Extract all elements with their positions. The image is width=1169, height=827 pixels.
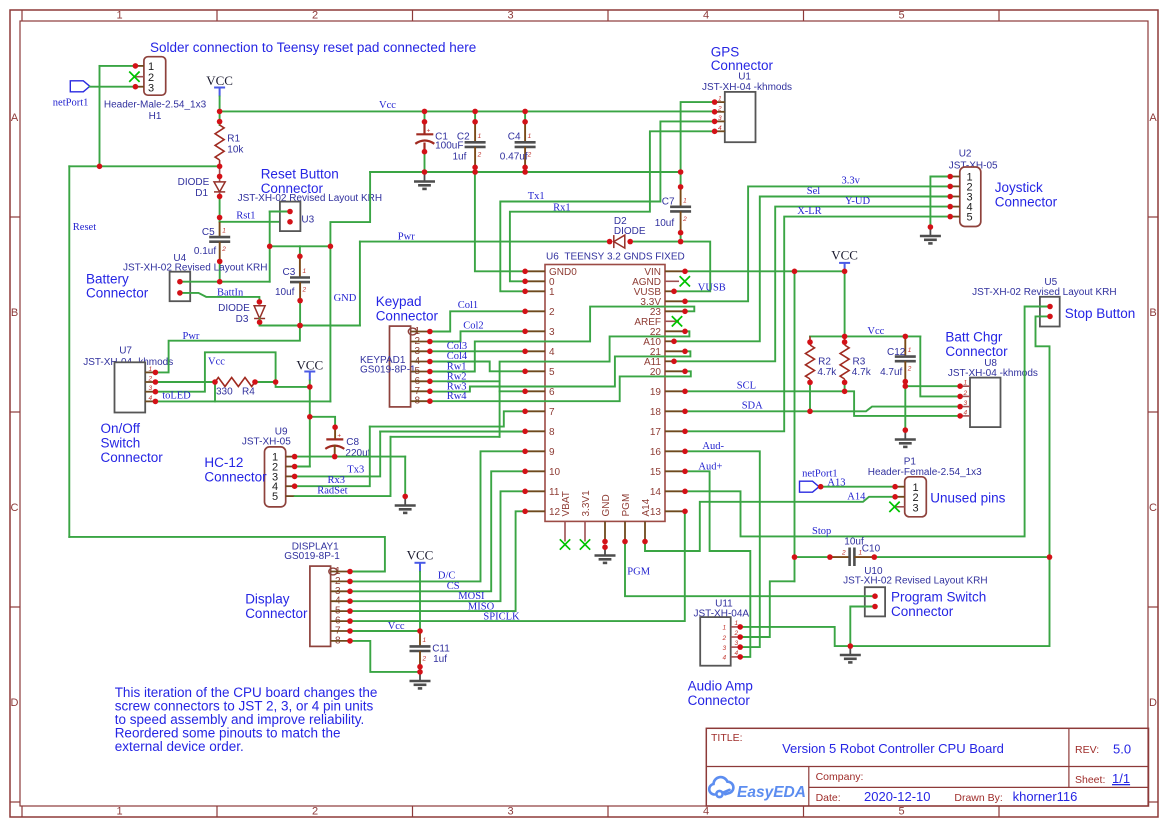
dot: DISPLAY1 pin stubs and dots	[347, 589, 353, 595]
dot: U6 right pin stubs and dots	[682, 409, 688, 415]
svg-text:VCC: VCC	[296, 358, 323, 373]
wire A13 to P1 pin1	[819, 486, 895, 488]
dot: DISPLAY1 pin stubs and dots	[347, 579, 353, 585]
dot: KEYPAD1 pin stubs and dots	[427, 379, 433, 385]
wire U9 pin2 to VCC node	[295, 466, 310, 468]
wire U4 pin1 to riser	[180, 281, 270, 283]
svg-text:A14: A14	[847, 492, 866, 503]
svg-text:2: 2	[312, 10, 318, 22]
dot: U8 pin stubs and dots	[957, 394, 963, 400]
wire U3 pin1 to GND riser	[270, 211, 290, 213]
dot: junction VIN at C10	[792, 554, 798, 560]
svg-text:1: 1	[149, 366, 153, 373]
dot: junction C8 top	[332, 424, 338, 430]
svg-text:0.47uf: 0.47uf	[500, 152, 528, 163]
svg-text:10: 10	[549, 467, 561, 478]
svg-text:330: 330	[216, 387, 233, 398]
dot: junction C4 at bus	[522, 169, 528, 175]
svg-text:2: 2	[302, 287, 307, 294]
wire R3 to SCL	[844, 383, 846, 392]
dot: junction C12 node	[903, 383, 909, 389]
svg-text:C2: C2	[457, 132, 470, 143]
dot: U1 pin dots	[712, 109, 718, 115]
dot: junction display Vcc	[417, 628, 423, 634]
svg-text:15: 15	[650, 467, 662, 478]
dot: junction R4 right	[273, 379, 279, 385]
resistor R1 10k	[215, 125, 224, 160]
U6 3.3V1 no-connect X	[580, 539, 590, 549]
svg-text:1: 1	[683, 197, 687, 204]
dot: capacitor C3 10uf	[297, 253, 303, 259]
wire Pwr horizontal to D2	[360, 241, 610, 243]
svg-text:Connector: Connector	[995, 195, 1058, 210]
svg-text:Header-Female-2.54_1x3: Header-Female-2.54_1x3	[868, 467, 982, 478]
svg-text:4: 4	[549, 347, 555, 358]
wire VIN line	[685, 270, 845, 272]
dot: U6 right pin stubs and dots	[671, 359, 677, 365]
wire 3.3v net pin 3.3V to joystick pin2	[685, 186, 950, 301]
wire VCC to R1	[219, 111, 221, 125]
wire Y-UD net A11 to joystick pin4	[674, 207, 950, 362]
svg-text:3: 3	[507, 10, 513, 22]
svg-text:Tx1: Tx1	[528, 191, 545, 202]
ground symbol under U6	[604, 547, 606, 555]
dot: junction Rst1 node	[217, 215, 223, 221]
svg-text:4.7k: 4.7k	[817, 367, 837, 378]
svg-text:Stop Button: Stop Button	[1065, 306, 1136, 321]
svg-text:3: 3	[148, 83, 154, 95]
dot: capacitor C4 0.47uf	[522, 119, 528, 125]
svg-text:1: 1	[116, 806, 122, 818]
dot: U6 GND pin dots	[602, 539, 608, 545]
wire node under R1 horizontal	[69, 165, 219, 167]
svg-text:D3: D3	[236, 314, 249, 325]
wire VCC down to HC12 node	[309, 387, 311, 417]
svg-text:Aud+: Aud+	[698, 462, 722, 473]
title block logo cell divider	[808, 767, 810, 807]
dot: U6 left pin stubs and dots	[522, 349, 528, 355]
wire Stop net pin14 to U5 pin1	[685, 307, 1050, 537]
svg-text:16: 16	[650, 447, 662, 458]
wire Aud+ net pin15 to U11 pin4	[685, 471, 750, 657]
frame row ticks right	[1148, 216, 1158, 218]
svg-text:2: 2	[722, 635, 727, 642]
wire GND0 riser	[475, 172, 525, 271]
dot: U1 pin dots	[712, 129, 718, 135]
svg-text:C8: C8	[346, 437, 359, 448]
svg-text:0.1uf: 0.1uf	[194, 246, 216, 257]
wire SDA net	[685, 407, 960, 412]
wire Rw2	[430, 380, 500, 382]
svg-text:2: 2	[717, 105, 722, 112]
svg-text:3: 3	[718, 115, 722, 122]
svg-text:Reset Button: Reset Button	[261, 167, 339, 182]
svg-text:1: 1	[423, 637, 427, 644]
wire Rw3 to pin21 over chip	[430, 351, 691, 391]
svg-text:Sel: Sel	[807, 186, 821, 197]
dot: junction GND vertical at bus y246	[328, 244, 334, 250]
svg-text:X-LR: X-LR	[797, 206, 822, 217]
dot: U6 left pin stubs and dots	[522, 469, 528, 475]
dot: U7 pin dots	[153, 379, 159, 385]
dot: U6 right pin stubs and dots	[671, 289, 677, 295]
svg-text:Drawn By:: Drawn By:	[954, 792, 1002, 804]
svg-text:C7: C7	[662, 197, 675, 208]
dot: diode D1	[217, 194, 223, 200]
dot: P1 pin dots	[892, 484, 898, 490]
svg-text:D: D	[11, 697, 19, 709]
svg-text:Batt Chgr: Batt Chgr	[945, 330, 1003, 345]
dot: U8 pin stubs and dots	[957, 383, 963, 389]
dot: U10 pin dots	[872, 604, 878, 610]
svg-text:R1: R1	[227, 133, 240, 144]
wire H1 pin1 left	[100, 65, 136, 67]
resistor R2 4.7k	[809, 336, 811, 345]
dot: capacitor C10 10uf horizontal	[872, 554, 878, 560]
wire U10 pin2 to gnd	[850, 607, 875, 647]
dot: U6 left pin stubs and dots	[522, 449, 528, 455]
svg-text:3.3V1: 3.3V1	[581, 490, 592, 517]
dot: junction bus at C7 riser	[678, 169, 684, 175]
power flag VCC (top left)	[214, 88, 225, 97]
connector KEYPAD1 body	[390, 326, 411, 407]
resistor R3 4.7k	[844, 336, 846, 345]
svg-text:Connector: Connector	[101, 450, 164, 465]
dot: resistor R3 4.7k	[842, 380, 848, 386]
svg-text:Unused pins: Unused pins	[930, 491, 1005, 506]
wire U7 pin1 Pwr	[155, 326, 300, 373]
svg-text:14: 14	[650, 487, 662, 498]
dot: capacitor C1 100uF polarized	[422, 109, 428, 115]
dot: KEYPAD1 pin stubs and dots	[427, 359, 433, 365]
wire U5 pin2 to right loop	[1036, 316, 1051, 557]
dot: junction gnd riser	[402, 494, 408, 500]
title block row divider 2	[809, 786, 1149, 788]
wire U9 pin1 line	[295, 456, 406, 458]
wire VCC display flag down	[419, 572, 421, 631]
capacitor C4 0.47uf	[524, 111, 526, 121]
wire R2 to SDA	[809, 383, 811, 412]
svg-text:GND: GND	[334, 293, 357, 304]
dot: P1 pin dots	[892, 494, 898, 500]
wire U7 pin3 Vcc loop	[155, 352, 275, 391]
wire display pin8 to gnd	[350, 641, 420, 672]
svg-text:5: 5	[549, 367, 555, 378]
svg-text:JST-XH-02 Revised Layout KRH: JST-XH-02 Revised Layout KRH	[238, 193, 383, 204]
wire Rw2/RadSet riser to pin22 over chip	[500, 331, 690, 437]
svg-text:5: 5	[967, 212, 973, 224]
dot: junction C1 at bus	[422, 169, 428, 175]
dot: capacitor C11 1uf	[417, 664, 423, 670]
wire pin6 tap	[500, 390, 525, 392]
dot: capacitor C4 0.47uf	[522, 165, 528, 171]
wire right loop down	[850, 557, 1049, 646]
svg-text:4: 4	[703, 10, 709, 22]
svg-text:DIODE: DIODE	[178, 177, 210, 188]
dot: U6 right pin stubs and dots	[682, 369, 688, 375]
svg-text:Date:: Date:	[816, 792, 841, 804]
ground symbol program switch	[849, 646, 851, 655]
U6 left pin stubs and dots	[525, 270, 545, 272]
dot: junction H1 pin1	[133, 63, 139, 69]
dot: U8 pin stubs and dots	[957, 413, 963, 419]
dot: junction H1 pin3	[133, 84, 139, 90]
svg-text:Connector: Connector	[688, 693, 751, 708]
H1 pin3 stub	[135, 86, 144, 88]
svg-text:Company:: Company:	[816, 771, 864, 783]
U9 pin stubs	[286, 456, 295, 458]
wire pin1 ground riser	[404, 457, 406, 497]
svg-text:6: 6	[549, 387, 555, 398]
dot: U6 right pin stubs and dots	[682, 329, 688, 335]
svg-text:GS019-8P-1: GS019-8P-1	[360, 365, 416, 376]
wire U11 pin1 to gnd bus	[740, 627, 850, 646]
svg-text:5: 5	[898, 10, 904, 22]
svg-text:U7: U7	[119, 346, 132, 357]
dot: U2 pin stubs and dots	[947, 204, 953, 210]
dot: capacitor C3 10uf	[297, 298, 303, 304]
svg-text:3: 3	[913, 502, 919, 514]
dot: U6 left pin stubs and dots	[522, 389, 528, 395]
dot: U6 GND pin dots	[602, 544, 608, 550]
svg-text:1/1: 1/1	[1112, 771, 1130, 786]
wire U7 pin4 toLED	[155, 400, 330, 402]
svg-text:1: 1	[964, 380, 968, 387]
dot: U6 left pin stubs and dots	[522, 429, 528, 435]
svg-text:HC-12: HC-12	[204, 455, 243, 470]
dot: junction C7 at Pwr line	[678, 239, 684, 245]
dot: junction R1 bottom	[217, 164, 223, 170]
svg-text:1: 1	[303, 268, 307, 275]
ground symbol under C1	[424, 172, 426, 182]
wire Rw4 to pin20 over chip	[430, 371, 691, 401]
svg-text:2: 2	[549, 307, 555, 318]
dot: junction VCC center	[307, 384, 313, 390]
ground symbol under C11	[419, 672, 421, 681]
wire Rst1 to U3 pin2	[220, 221, 290, 223]
DISPLAY1 pin stubs and dots	[331, 571, 350, 573]
diode D2	[614, 235, 625, 248]
svg-text:Y-UD: Y-UD	[845, 196, 870, 207]
svg-text:SCL: SCL	[737, 381, 756, 392]
dot: U6 left pin stubs and dots	[522, 489, 528, 495]
dot: U9 pin dots	[292, 454, 298, 460]
DISPLAY1 pin1 circle	[329, 568, 337, 575]
wire VIN rail vertical	[794, 271, 796, 581]
dot: DISPLAY1 pin stubs and dots	[347, 608, 353, 614]
dot: U7 pin dots	[153, 399, 159, 405]
title block outline	[706, 728, 1148, 806]
wire X-LR net pin17 to joystick pin5	[685, 217, 950, 432]
wire Col2	[430, 331, 525, 341]
dot: U6 right pin stubs and dots	[682, 449, 688, 455]
wire D/C display pin2 to pin9	[350, 451, 525, 581]
svg-text:PGM: PGM	[621, 494, 632, 517]
dot: U6 left pin stubs and dots	[522, 309, 528, 315]
dot: U7 pin dots	[153, 370, 159, 376]
ground symbol near HC-12	[404, 496, 406, 505]
wire U9 pin5 RadSet	[295, 437, 391, 496]
wire Reset to display pin1	[69, 537, 385, 572]
wire Sel net A10 to joystick pin3	[674, 197, 950, 342]
dot: capacitor C2 1uf	[472, 119, 478, 125]
wire R4 right	[255, 381, 276, 383]
wire Aud- net pin16 to U11 pin3	[685, 451, 760, 647]
dot: capacitor C11 1uf	[417, 669, 423, 675]
svg-text:Sheet:: Sheet:	[1075, 774, 1105, 786]
svg-text:Switch: Switch	[101, 436, 141, 451]
dot: U6 A14 pin dot	[642, 539, 648, 545]
svg-text:Connector: Connector	[204, 470, 267, 485]
wire C10 left	[795, 556, 830, 558]
svg-text:Stop: Stop	[812, 526, 831, 537]
svg-text:U3: U3	[301, 215, 314, 226]
svg-text:Rx3: Rx3	[328, 475, 346, 486]
dot: U9 pin dots	[292, 474, 298, 480]
svg-text:3: 3	[964, 400, 968, 407]
connector U10 body	[865, 587, 885, 616]
svg-text:TITLE:: TITLE:	[711, 732, 743, 744]
dot: junction R1 bottom	[97, 164, 103, 170]
dot: U6 right pin stubs and dots	[682, 309, 688, 315]
wire VIN to U11 pin2	[740, 581, 794, 637]
dot: U6 right pin stubs and dots	[682, 389, 688, 395]
H1 pin1 stub	[135, 65, 144, 67]
wire U9 pin3 Tx3	[295, 432, 381, 477]
svg-text:Vcc: Vcc	[379, 100, 396, 111]
svg-text:Vcc: Vcc	[867, 326, 884, 337]
svg-text:2: 2	[221, 246, 226, 253]
dot: U3 pin1 dot	[287, 209, 293, 215]
svg-text:R3: R3	[853, 356, 866, 367]
U6 VBAT no-connect X	[560, 539, 570, 549]
svg-text:Connector: Connector	[376, 309, 439, 324]
svg-text:5: 5	[272, 491, 278, 503]
dot: DISPLAY1 pin stubs and dots	[347, 618, 353, 624]
dot: U5 pin dots	[1047, 314, 1053, 320]
capacitor C2 1uf	[474, 111, 476, 121]
svg-text:EasyEDA: EasyEDA	[737, 784, 806, 801]
svg-text:2: 2	[963, 390, 968, 397]
wire Col1	[430, 311, 525, 331]
dot: capacitor C2 1uf	[472, 165, 478, 171]
dot: diode D2	[627, 239, 633, 245]
svg-text:Display: Display	[245, 592, 290, 607]
dot: junction C2 at bus	[472, 169, 478, 175]
svg-text:9: 9	[549, 447, 555, 458]
svg-text:PGM: PGM	[627, 566, 650, 577]
svg-text:18: 18	[650, 407, 662, 418]
svg-text:1uf: 1uf	[453, 152, 467, 163]
wire Rx3 to pin7	[370, 411, 525, 426]
connector U1 body	[725, 92, 756, 142]
U6 AGND no-connect X	[680, 276, 690, 286]
svg-text:2: 2	[312, 806, 318, 818]
svg-text:B: B	[1149, 307, 1156, 319]
svg-text:GND: GND	[601, 494, 612, 516]
svg-text:1: 1	[723, 625, 727, 632]
power flag VCC (display)	[415, 563, 426, 572]
svg-text:VCC: VCC	[407, 548, 434, 563]
dot: U6 left pin stubs and dots	[522, 269, 528, 275]
dot: junction R2 at SDA	[807, 409, 813, 415]
connector U2 joystick body	[960, 167, 981, 227]
svg-text:Connector: Connector	[945, 344, 1008, 359]
svg-text:REV:: REV:	[1075, 744, 1099, 756]
KEYPAD1 pin1 circle	[408, 328, 416, 335]
svg-text:Rst1: Rst1	[236, 211, 255, 222]
capacitor C5 0.1uf	[219, 222, 221, 237]
dot: resistor R3 4.7k	[842, 339, 848, 345]
svg-text:4: 4	[723, 655, 727, 662]
wire MOSI display pin4 to pin11	[350, 491, 525, 601]
svg-text:C12: C12	[887, 347, 906, 358]
svg-text:C11: C11	[432, 644, 450, 655]
dot: U4 pin1 dot	[177, 279, 183, 285]
resistor R4 330	[215, 378, 255, 387]
svg-text:Reset: Reset	[73, 222, 96, 233]
capacitor C12 4.7uf	[904, 336, 906, 356]
wire A14 net	[645, 497, 895, 551]
svg-text:1: 1	[528, 133, 532, 140]
svg-text:Rw4: Rw4	[447, 391, 468, 402]
dot: U4 pin2 dot	[177, 290, 183, 296]
dot: U6 left pin stubs and dots	[522, 509, 528, 515]
svg-text:SPICLK: SPICLK	[483, 611, 520, 622]
dot: U1 pin dots	[712, 119, 718, 125]
wire R4 junction jog to VCC	[276, 382, 310, 387]
svg-text:C5: C5	[202, 227, 215, 238]
connector U8 body	[970, 378, 1001, 428]
svg-text:17: 17	[650, 427, 662, 438]
svg-text:3: 3	[507, 806, 513, 818]
svg-text:Audio Amp: Audio Amp	[688, 679, 753, 694]
svg-text:2: 2	[422, 655, 427, 662]
U11 pin stubs and dots	[731, 626, 741, 628]
svg-text:SDA: SDA	[742, 400, 763, 411]
dot: resistor R4 330	[212, 379, 218, 385]
svg-text:Vcc: Vcc	[388, 621, 405, 632]
dot: U6 left pin stubs and dots	[522, 289, 528, 295]
wire Vcc to U8 pin2	[920, 336, 960, 396]
dot: U7 pin dots	[153, 389, 159, 395]
wire C5 bottom to U4 line	[219, 261, 221, 281]
dot: junction joystick gnd	[928, 224, 934, 230]
dot: U6 right pin stubs and dots	[682, 269, 688, 275]
dot: U11 pin stubs and dots	[737, 644, 743, 650]
svg-text:2: 2	[148, 376, 153, 383]
header P1 body	[905, 477, 927, 517]
svg-text:1: 1	[908, 347, 912, 354]
dot: U5 pin dots	[1047, 304, 1053, 310]
dot: junction C5 bottom	[217, 279, 223, 285]
svg-text:4.7k: 4.7k	[852, 367, 872, 378]
dot: capacitor C7 10uf	[678, 184, 684, 190]
svg-text:D: D	[1149, 697, 1157, 709]
wire D3 to bottom bus	[259, 319, 261, 326]
capacitor C1 100uF polarized	[424, 111, 426, 121]
dot: U2 pin stubs and dots	[947, 214, 953, 220]
svg-text:Solder connection to Teensy re: Solder connection to Teensy reset pad co…	[150, 40, 476, 55]
svg-text:khorner116: khorner116	[1013, 789, 1078, 804]
svg-text:DIODE: DIODE	[614, 226, 646, 237]
dot: U2 pin stubs and dots	[947, 174, 953, 180]
EasyEDA logo cloud	[709, 777, 733, 794]
svg-text:10uf: 10uf	[655, 218, 675, 229]
connector U11 body	[700, 617, 731, 666]
capacitor C10 10uf horizontal	[830, 556, 850, 558]
wire U1 pin1 to gnd bus	[681, 102, 715, 172]
